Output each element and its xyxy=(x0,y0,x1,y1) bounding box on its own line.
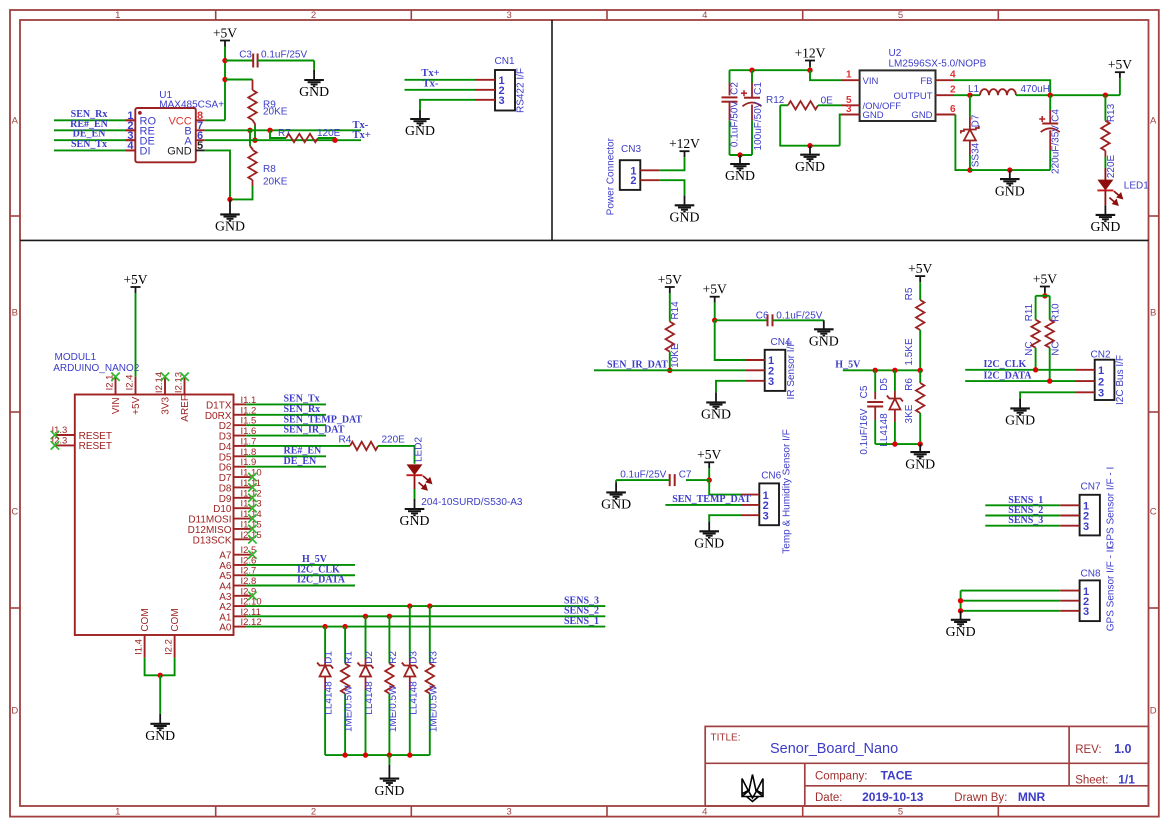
svg-text:SEN_TEMP_DAT: SEN_TEMP_DAT xyxy=(672,494,751,505)
svg-text:4: 4 xyxy=(702,10,707,21)
svg-text:C5: C5 xyxy=(859,385,870,398)
IC U2 LM2596SX-5.0/NOPB xyxy=(860,70,936,121)
svg-text:COM: COM xyxy=(140,608,151,631)
wire net SENS_1 (CN7) xyxy=(985,504,1060,506)
wire R7 jog right xyxy=(318,138,335,140)
svg-text:3V3: 3V3 xyxy=(160,396,171,414)
svg-text:GND: GND xyxy=(405,123,435,138)
svg-text:2: 2 xyxy=(311,10,316,21)
wire B line to Tx- xyxy=(205,129,361,131)
svg-text:CN8: CN8 xyxy=(1081,568,1101,579)
resistor R2 1ME/0.5W xyxy=(387,614,392,619)
junction CN8 pin2 xyxy=(958,598,963,603)
svg-text:2: 2 xyxy=(311,807,316,818)
svg-text:GND: GND xyxy=(905,456,935,471)
svg-text:0.1uF/25V: 0.1uF/25V xyxy=(261,50,307,61)
svg-text:3: 3 xyxy=(768,376,774,388)
pin 1 VIN (U2) xyxy=(841,79,860,81)
svg-text:D13SCK: D13SCK xyxy=(193,535,232,546)
svg-text:RESET: RESET xyxy=(79,441,112,452)
svg-text:220E: 220E xyxy=(382,434,406,445)
svg-text:AREF: AREF xyxy=(180,395,191,422)
svg-text:5: 5 xyxy=(898,10,903,21)
ground (ladder) xyxy=(380,765,400,785)
svg-text:C3: C3 xyxy=(239,50,252,61)
svg-text:SEN_IR_DAT: SEN_IR_DAT xyxy=(607,360,668,371)
pin 4 FB (U2) xyxy=(936,79,955,81)
svg-text:204-10SURD/S530-A3: 204-10SURD/S530-A3 xyxy=(421,497,523,508)
svg-text:1: 1 xyxy=(1098,365,1104,377)
ground (H_5V) xyxy=(910,444,930,458)
svg-text:R2: R2 xyxy=(388,651,399,664)
svg-text:+5V: +5V xyxy=(123,272,147,287)
svg-text:D7: D7 xyxy=(971,114,982,127)
ground (CN3) xyxy=(675,195,695,211)
inductor L1 470uH xyxy=(980,89,1016,95)
svg-text:LL4148: LL4148 xyxy=(364,681,375,715)
power +5V (buck output) xyxy=(1115,72,1125,78)
wire COM pins to GND xyxy=(145,658,175,676)
wire net H_5V xyxy=(246,564,355,566)
svg-text:VIN: VIN xyxy=(111,397,122,414)
svg-text:CN3: CN3 xyxy=(621,144,641,155)
svg-text:I2.2: I2.2 xyxy=(163,639,174,655)
svg-text:R5: R5 xyxy=(904,287,915,300)
wire R9 branch xyxy=(225,79,253,81)
wire net SENS_1 xyxy=(246,626,605,628)
svg-text:LL4148: LL4148 xyxy=(879,413,890,447)
junction rail gnd tap xyxy=(1007,167,1012,172)
svg-text:1/1: 1/1 xyxy=(1118,773,1135,787)
ground (arduino COM) xyxy=(150,714,170,730)
wire net SEN_IR_DAT xyxy=(594,369,746,371)
capacitor C6 0.1uF/25V xyxy=(715,319,768,321)
svg-text:R11: R11 xyxy=(1024,303,1035,321)
junction R11-CLK xyxy=(1033,367,1038,372)
wire Tx+ to CN1 pin1 xyxy=(405,79,476,81)
svg-text:D7: D7 xyxy=(219,473,232,484)
svg-text:5: 5 xyxy=(197,140,203,152)
svg-text:D11MOSI: D11MOSI xyxy=(188,515,231,526)
pin 2 (CN4) xyxy=(746,369,765,371)
svg-text:GPS Sensor I/F - II: GPS Sensor I/F - II xyxy=(1106,547,1117,631)
svg-text:LED2: LED2 xyxy=(414,437,425,462)
connector CN8 GPS Sensor I/F - II xyxy=(1080,580,1100,621)
svg-text:COM: COM xyxy=(170,608,181,631)
wire H_5V gnd rail xyxy=(875,443,920,445)
power +12V (CN3) xyxy=(680,151,690,157)
svg-text:GND: GND xyxy=(601,497,631,512)
svg-text:3: 3 xyxy=(499,95,505,107)
wire net SEN_Tx xyxy=(246,403,326,405)
wire CN8 pin1 xyxy=(961,590,1061,592)
pin 2 RE (U1) xyxy=(125,129,135,131)
svg-text:Date:: Date: xyxy=(815,792,843,804)
svg-text:1ME/0.5W: 1ME/0.5W xyxy=(428,685,439,732)
junction C1 tap xyxy=(749,68,754,73)
wire net I2C_DATA xyxy=(965,380,1075,382)
pin 3 (CN6) xyxy=(741,514,759,516)
svg-text:1: 1 xyxy=(115,10,120,21)
svg-text:GND: GND xyxy=(946,624,976,639)
svg-text:+5V: +5V xyxy=(908,261,932,276)
wire U1 GND pin to junction xyxy=(205,150,230,199)
svg-text:+5V: +5V xyxy=(1033,271,1057,286)
svg-text:CN1: CN1 xyxy=(495,56,515,67)
svg-text:D1TX: D1TX xyxy=(206,400,232,411)
wire net SEN_TEMP_DAT xyxy=(246,424,326,426)
svg-text:NC: NC xyxy=(1050,341,1061,355)
svg-text:1ME/0.5W: 1ME/0.5W xyxy=(344,685,355,732)
svg-text:100uF/50V: 100uF/50V xyxy=(753,101,764,150)
svg-text:Tx-: Tx- xyxy=(423,79,439,90)
svg-text:Tx-: Tx- xyxy=(353,120,369,131)
svg-text:C: C xyxy=(11,506,18,517)
connector CN7 GPS Sensor I/F - I xyxy=(1080,495,1100,536)
wire net DE_EN xyxy=(125,139,135,141)
resistor R14 10KE xyxy=(669,293,671,322)
svg-text:LED1: LED1 xyxy=(1124,180,1149,191)
svg-text:A: A xyxy=(12,116,19,127)
resistor R8 20KE xyxy=(250,146,253,150)
wire CN3 pin1 to +12V xyxy=(660,157,685,170)
svg-text:+5V: +5V xyxy=(131,396,142,414)
connector CN3 Power Connector xyxy=(620,160,641,190)
svg-text:R14: R14 xyxy=(670,301,681,320)
wire net I2C_DATA xyxy=(246,585,355,587)
junction (C3 tap) xyxy=(222,58,227,63)
svg-text:I2C_DATA: I2C_DATA xyxy=(984,370,1033,381)
pin 3 GND (U2) xyxy=(841,114,860,116)
wire R4 to LED2 xyxy=(378,446,415,464)
wire net SENS_2 (CN7) xyxy=(985,515,1060,517)
svg-text:+5V: +5V xyxy=(1108,57,1132,72)
svg-text:GND: GND xyxy=(374,783,404,798)
pin 2 OUTPUT (U2) xyxy=(936,94,955,96)
svg-text:+12V: +12V xyxy=(795,45,826,60)
wire CN3 pin2 to GND xyxy=(660,180,685,195)
svg-text:GND: GND xyxy=(694,536,724,551)
junction R13 tap xyxy=(1103,93,1108,98)
junction D5 tap xyxy=(892,368,897,373)
junction CN4 +5V xyxy=(712,318,717,323)
wire net RE#_EN xyxy=(246,455,326,457)
pin 1 (CN8) xyxy=(1060,590,1079,592)
resistor R7 120E xyxy=(286,134,318,142)
svg-text:IR Sensor I/F: IR Sensor I/F xyxy=(786,341,797,400)
wire up to +5V symbol xyxy=(1119,78,1121,95)
svg-text:Tx+: Tx+ xyxy=(421,68,439,79)
junction R6 gnd xyxy=(918,441,923,446)
svg-text:DI: DI xyxy=(140,146,151,158)
diode D7 SS34 xyxy=(969,95,971,117)
svg-text:6: 6 xyxy=(950,104,956,115)
svg-text:U2: U2 xyxy=(889,48,902,59)
junction R7 left xyxy=(267,128,272,133)
ground (CN1) xyxy=(410,110,430,125)
svg-text:DE_EN: DE_EN xyxy=(284,456,318,467)
pin 1 (CN1) xyxy=(475,79,495,81)
pin 2 (CN6) xyxy=(741,504,759,506)
connector CN1 xyxy=(495,70,515,111)
svg-text:GND: GND xyxy=(911,110,932,121)
svg-text:C6: C6 xyxy=(756,310,769,321)
wire pin6 to gnd rail xyxy=(955,115,970,171)
wire +5V to CN6 pin1 xyxy=(709,480,741,495)
pin 2 (CN1) xyxy=(475,89,495,91)
junction ladder rail xyxy=(387,752,392,757)
pin I2.14 3V3 (MODUL1) xyxy=(164,377,166,395)
power +5V (I2C pullups) xyxy=(1040,287,1050,293)
connector CN2 I2C Bus I/F xyxy=(1095,360,1115,400)
wire ladder gnd rail xyxy=(325,754,430,756)
logo trident xyxy=(742,775,763,802)
ground (CN8) xyxy=(951,611,971,626)
pin 3 (CN7) xyxy=(1060,525,1079,527)
svg-text:SEN_Tx: SEN_Tx xyxy=(71,139,107,150)
ground (R12) xyxy=(800,146,820,161)
svg-text:D4: D4 xyxy=(219,442,232,453)
svg-text:B: B xyxy=(1150,307,1156,318)
title block xyxy=(705,726,1148,806)
wire ladder gnd stem xyxy=(388,755,390,765)
wire R9 to A line xyxy=(254,126,256,140)
pin 3 DE (U1) xyxy=(125,139,135,141)
ground (C1 C2) xyxy=(730,155,750,170)
svg-text:RE#_EN: RE#_EN xyxy=(284,446,323,457)
svg-text:FB: FB xyxy=(920,76,932,87)
junction C4 tap xyxy=(1048,93,1053,98)
svg-text:R6: R6 xyxy=(904,378,915,391)
wire net RE#_EN xyxy=(125,129,135,131)
svg-text:D0RX: D0RX xyxy=(205,411,232,422)
wire Tx- to CN1 pin2 xyxy=(405,89,476,91)
pin I2.4 +5V (MODUL1) xyxy=(135,377,137,395)
wire CN1 pin3 to GND xyxy=(420,100,475,110)
svg-text:SEN_Tx: SEN_Tx xyxy=(284,394,320,405)
junction (R9 tap) xyxy=(222,77,227,82)
svg-text:D3: D3 xyxy=(219,432,232,443)
svg-text:C4: C4 xyxy=(1051,109,1062,122)
svg-text:3: 3 xyxy=(846,104,852,115)
wire L1 to +5V xyxy=(1016,94,1120,96)
ground (C3) xyxy=(304,70,324,86)
wire CN8 gnd bus xyxy=(960,591,962,611)
svg-text:D6: D6 xyxy=(219,463,232,474)
svg-text:I2.1: I2.1 xyxy=(104,375,115,391)
wire R7 jog left xyxy=(270,130,286,138)
svg-text:1: 1 xyxy=(846,70,852,81)
svg-text:LL4148: LL4148 xyxy=(324,681,335,715)
svg-text:Sheet:: Sheet: xyxy=(1075,775,1108,787)
wire +5V vertical to VCC xyxy=(224,47,226,121)
svg-text:3: 3 xyxy=(763,510,769,522)
svg-text:470uH: 470uH xyxy=(1021,84,1050,95)
svg-text:GND: GND xyxy=(725,168,755,183)
resistor R3 1ME/0.5W xyxy=(427,603,432,608)
wire net SEN_IR_DAT xyxy=(246,435,326,437)
junction cap gnd xyxy=(737,152,742,157)
svg-text:R7: R7 xyxy=(278,128,291,139)
svg-text:GND: GND xyxy=(400,513,430,528)
pin 3 (CN1) xyxy=(475,99,495,101)
pin 1 (CN2) xyxy=(1076,369,1095,371)
power +12V (rail) xyxy=(805,61,815,67)
pin I2.2 COM (MODUL1) xyxy=(174,635,176,658)
svg-text:Company:: Company: xyxy=(815,771,867,783)
svg-text:R12: R12 xyxy=(766,95,785,106)
wire R8 to B line xyxy=(249,130,251,146)
svg-text:SENS_3: SENS_3 xyxy=(1008,515,1043,526)
svg-text:B: B xyxy=(12,307,18,318)
junction +12V stem xyxy=(807,68,812,73)
svg-text:2019-10-13: 2019-10-13 xyxy=(862,790,924,804)
svg-text:C1: C1 xyxy=(753,82,764,95)
pin I1.3 RESET (MODUL1) xyxy=(55,434,75,436)
svg-text:2: 2 xyxy=(950,85,956,96)
svg-text:GND: GND xyxy=(701,407,731,422)
svg-text:Tx+: Tx+ xyxy=(353,130,371,141)
pin 2 (CN7) xyxy=(1060,515,1079,517)
svg-text:GND: GND xyxy=(995,183,1025,198)
resistor R10 NC xyxy=(1049,296,1051,320)
diode D1 LL4148 xyxy=(322,624,327,629)
junction D7 gnd xyxy=(967,167,972,172)
svg-text:R1: R1 xyxy=(344,651,355,664)
svg-text:D: D xyxy=(1150,705,1157,716)
svg-text:REV:: REV: xyxy=(1075,744,1101,756)
pin 1 (CN3) xyxy=(640,169,659,171)
svg-text:GND: GND xyxy=(145,728,175,743)
ground (U1) xyxy=(220,199,240,220)
junction ladder rail xyxy=(342,752,347,757)
svg-text:20KE: 20KE xyxy=(263,107,288,118)
svg-text:D: D xyxy=(11,705,18,716)
wire CN8 pin3 xyxy=(961,610,1061,612)
junction GND xyxy=(227,197,232,202)
ground (CN4) xyxy=(706,392,726,408)
svg-text:4: 4 xyxy=(950,70,956,81)
svg-text:L1: L1 xyxy=(968,84,980,95)
svg-text:R13: R13 xyxy=(1106,103,1117,122)
power +5V (U1 area) xyxy=(220,41,230,47)
svg-text:1: 1 xyxy=(115,807,120,818)
svg-text:SEN_TEMP_DAT: SEN_TEMP_DAT xyxy=(284,414,363,425)
svg-text:2: 2 xyxy=(1098,376,1104,388)
wire net SEN_Rx xyxy=(125,119,135,121)
capacitor C5 0.1uF/16V xyxy=(874,370,876,392)
wire OUTPUT to L1 xyxy=(954,94,980,96)
pin 2 (CN3) xyxy=(640,179,659,181)
wire FB to output node xyxy=(954,80,1050,95)
wire R12 left leg to GND xyxy=(780,105,840,145)
wire U2 GND pin3 down xyxy=(840,115,841,146)
wire C7 to GND xyxy=(616,479,670,481)
pin I1.4 COM (MODUL1) xyxy=(144,635,146,658)
wire gnd rail xyxy=(970,169,1050,171)
LED LED1 xyxy=(1104,168,1106,180)
diode D5 LL4148 xyxy=(894,370,896,391)
svg-text:D12MISO: D12MISO xyxy=(188,525,232,536)
diode D3 LL4148 xyxy=(407,603,412,608)
svg-text:1ME/0.5W: 1ME/0.5W xyxy=(388,685,399,732)
svg-text:0.1uF/25V: 0.1uF/25V xyxy=(620,470,666,481)
ground (C7) xyxy=(606,482,626,498)
svg-text:ARDUINO_NANO2: ARDUINO_NANO2 xyxy=(53,363,140,374)
svg-text:SEN_Rx: SEN_Rx xyxy=(284,404,321,415)
pin 5 GND (U1) xyxy=(196,149,205,151)
svg-text:+5V: +5V xyxy=(213,25,237,40)
wire net SEN_Rx xyxy=(246,414,326,416)
ground (CN6) xyxy=(699,521,719,537)
junction CN6 +5V xyxy=(707,477,712,482)
svg-text:D3: D3 xyxy=(408,651,419,664)
junction R5/R6 xyxy=(918,368,923,373)
svg-text:CN6: CN6 xyxy=(761,470,781,481)
wire net H_5V xyxy=(843,369,920,371)
wire net SENS_3 xyxy=(246,605,605,607)
svg-text:5: 5 xyxy=(898,807,903,818)
svg-text:R8: R8 xyxy=(263,164,276,175)
wire gnd stem xyxy=(159,675,161,714)
wire R12 to /ON/OFF xyxy=(818,104,841,106)
svg-text:4: 4 xyxy=(702,807,707,818)
svg-text:VIN: VIN xyxy=(863,76,879,87)
junction COM gnd xyxy=(158,673,163,678)
capacitor C7 0.1uF/25V xyxy=(686,479,709,481)
junction R12 gnd xyxy=(807,143,812,148)
svg-text:0.1uF/16V: 0.1uF/16V xyxy=(859,408,870,454)
svg-text:Temp & Humidity Sensor I/F: Temp & Humidity Sensor I/F xyxy=(782,429,793,553)
wire net I2C_CLK xyxy=(965,369,1075,371)
wire VCC to +5V rail xyxy=(205,119,225,121)
power +5V (arduino) xyxy=(131,287,141,293)
svg-text:TACE: TACE xyxy=(881,769,913,783)
wire C3 to GND xyxy=(258,60,314,62)
svg-text:2: 2 xyxy=(630,175,636,187)
svg-text:GND: GND xyxy=(795,159,825,174)
svg-text:GND: GND xyxy=(299,84,329,99)
svg-text:A0: A0 xyxy=(219,623,232,634)
resistor R11 NC xyxy=(1035,296,1037,320)
svg-text:10KE: 10KE xyxy=(670,343,681,368)
junction CN8 pin3 xyxy=(958,608,963,613)
svg-text:MNR: MNR xyxy=(1018,790,1046,804)
svg-text:220E: 220E xyxy=(1106,154,1117,178)
svg-text:GND: GND xyxy=(863,110,884,121)
wire net SEN_TEMP_DAT xyxy=(665,504,741,506)
wire +5V to arduino xyxy=(135,293,137,377)
svg-text:0.1uF/50V: 0.1uF/50V xyxy=(730,101,741,147)
ground (CN2) xyxy=(1010,398,1030,414)
svg-text:D8: D8 xyxy=(219,483,232,494)
wire rail to VIN xyxy=(810,70,841,80)
junction R10-DATA xyxy=(1047,378,1052,383)
svg-text:GND: GND xyxy=(1090,219,1120,234)
junction ladder rail xyxy=(363,752,368,757)
power +5V (R14) xyxy=(665,287,675,293)
wire +5V to CN4 pin1 xyxy=(715,320,746,360)
svg-text:NC: NC xyxy=(1024,341,1035,355)
wire net I2C_CLK xyxy=(246,574,355,576)
wire R8 bottom to GND junction xyxy=(230,186,253,199)
svg-text:220uF/35V: 220uF/35V xyxy=(1051,125,1062,174)
svg-text:I2.4: I2.4 xyxy=(124,375,135,391)
svg-text:GND: GND xyxy=(215,219,245,234)
diode D2 LL4148 xyxy=(363,614,368,619)
wire CN4 pin3 to GND xyxy=(716,381,746,393)
svg-text:3: 3 xyxy=(1098,388,1104,400)
